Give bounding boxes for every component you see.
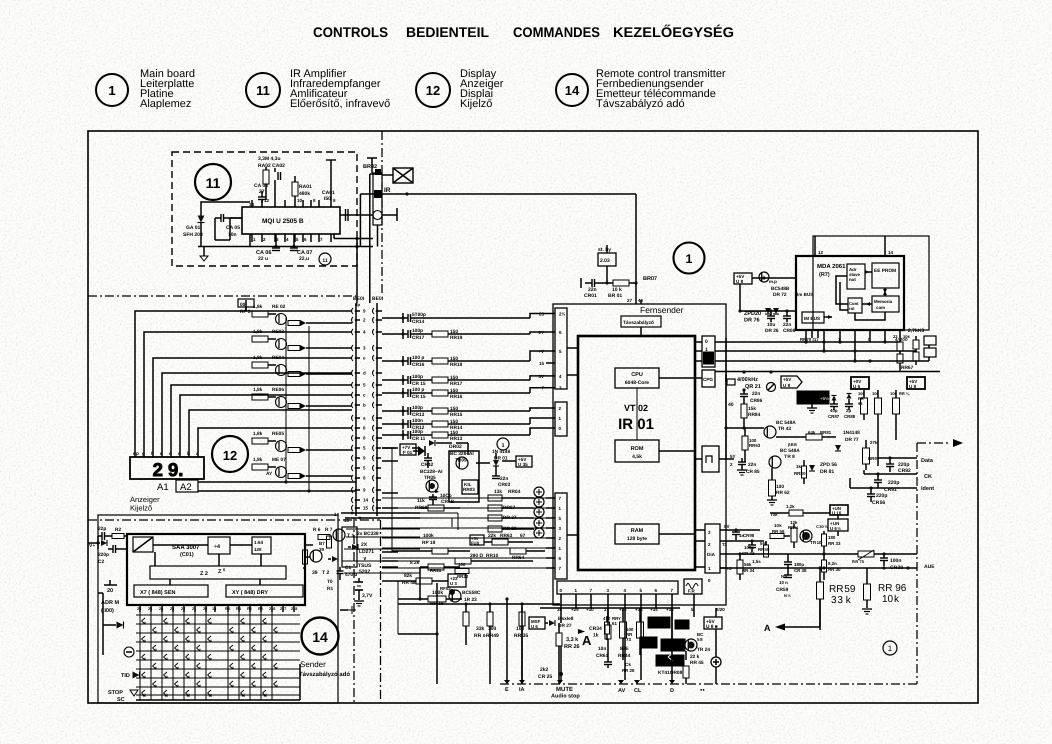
diode DR01 bbox=[493, 460, 499, 466]
transistor BC558C TR23 bbox=[449, 589, 455, 595]
power box +5V FU8 bbox=[470, 535, 484, 545]
connector pin 4 y332 bbox=[352, 329, 354, 335]
small box RF 5 bbox=[238, 299, 254, 307]
U2505 bottom pin 5 bbox=[294, 234, 296, 242]
U2505 top pin 12 bbox=[274, 200, 276, 207]
power box +UN U6 bbox=[828, 519, 848, 531]
resistor 100 RR35 bbox=[519, 612, 525, 626]
resistor 64k RR81 bbox=[806, 434, 822, 440]
strip pin 6 bbox=[655, 594, 657, 601]
resistor RR75 trim bbox=[858, 551, 874, 557]
wire CPU-right edge bbox=[659, 377, 695, 379]
wire row CR13 left bbox=[382, 410, 403, 412]
connector pin 14 y500 bbox=[352, 497, 354, 503]
SAA3007 bottom pin row bbox=[139, 605, 141, 612]
capacitor CR17 100p bbox=[407, 330, 409, 338]
bus verticals to EEPROM pins bbox=[805, 338, 807, 342]
pin +V left col1 bbox=[546, 350, 555, 352]
ground DR81 bbox=[807, 407, 817, 409]
wire CK bbox=[864, 473, 917, 475]
connector box CPG bbox=[702, 370, 715, 387]
connector pin b y405 bbox=[352, 402, 354, 408]
power box +5V U8 bottomcenter bbox=[704, 617, 722, 629]
wire connector col to CPU rows upper bbox=[381, 310, 382, 312]
IC block dark 1 bbox=[648, 617, 670, 628]
U2505 bottom pin 9 bbox=[330, 234, 332, 242]
F.R box oscillator bbox=[684, 579, 702, 594]
transistor block box bbox=[342, 527, 357, 567]
wires inside MDA2061 bbox=[865, 271, 872, 273]
capacitor CR12 100n bbox=[407, 420, 409, 428]
resistor 27k RR97 bbox=[863, 448, 870, 464]
capacitor CR16 100 p bbox=[407, 357, 409, 365]
MDA2061 bottom pins bbox=[805, 330, 807, 338]
circled minus symbol bbox=[124, 647, 134, 657]
wire stby down bbox=[606, 266, 608, 283]
wire row CR12 left bbox=[382, 423, 403, 425]
connector pin 3 y348 bbox=[352, 345, 354, 351]
circled plus bottom bbox=[711, 657, 721, 667]
wire Data bbox=[878, 457, 917, 459]
pin 3V left col1 bbox=[546, 375, 555, 377]
strip pin 0 bbox=[560, 594, 562, 601]
resistor RR96 body bbox=[864, 584, 871, 600]
transistor ME 07 pair bbox=[268, 466, 276, 468]
resistor BR01 10k bbox=[613, 280, 629, 286]
divider horizontal y296 bbox=[88, 295, 356, 297]
wire vertical x398 lower bbox=[397, 581, 399, 634]
battery 3.7V bbox=[355, 581, 363, 583]
transistor RE03 pair bbox=[268, 338, 276, 340]
pin 3 left col3 bbox=[546, 527, 555, 529]
pin 7 left col3 bbox=[546, 567, 555, 569]
block RAM 128 byte bbox=[615, 524, 659, 544]
wire row CR13 to pin bbox=[411, 410, 433, 412]
wire col3 to CPU bbox=[567, 534, 578, 536]
resistor RR38 bbox=[488, 526, 502, 532]
legend circle 1 Main board bbox=[96, 74, 128, 106]
capacitor CR 15 100p bbox=[407, 376, 409, 384]
wire RAM-right edge bbox=[659, 533, 695, 535]
capacitor CR 11 100p bbox=[407, 431, 409, 439]
wires bottom pins down bbox=[560, 601, 562, 608]
IR amplifier dashed box bbox=[172, 152, 357, 266]
wire row CR12 to pin bbox=[411, 423, 433, 425]
strip pin 4 bbox=[624, 594, 626, 601]
power box +5V U8 pentagon bbox=[781, 376, 802, 388]
transistor RE06 pair bbox=[268, 396, 276, 398]
wire IC pin7 to right bbox=[333, 235, 335, 239]
wire CPU bottom-right to DiA bbox=[695, 566, 705, 568]
U2505 top pin 11 bbox=[284, 200, 286, 207]
U2505 bottom pin 8 bbox=[318, 234, 320, 242]
capacitor CR14 5T00p bbox=[407, 314, 409, 322]
connector pin 9 y490 bbox=[352, 487, 354, 493]
resistor RR13 150 bbox=[432, 432, 448, 438]
wire DiA row 2 bbox=[720, 540, 764, 542]
U2505 bottom pin 2 bbox=[261, 234, 263, 242]
pin 12 top bbox=[814, 250, 816, 256]
ferrite bead box BR02 bbox=[393, 168, 413, 183]
connector box pulse bbox=[702, 446, 719, 472]
wire row CR16 to pin bbox=[411, 360, 433, 362]
junction dots bus bbox=[822, 340, 825, 343]
connector box 0/1/Meg bbox=[702, 336, 715, 367]
U2505 top pin 14 bbox=[251, 200, 253, 207]
wire RE03 output bbox=[312, 347, 352, 349]
U2505 top pin 8 bbox=[310, 200, 312, 207]
power box +5V U8 right bbox=[907, 377, 925, 389]
U2505 bottom pin 1 bbox=[251, 234, 253, 242]
pin 0 left col2 bbox=[546, 427, 555, 429]
pin 7 left col3 bbox=[546, 497, 555, 499]
connector pin 2 y320 bbox=[352, 317, 354, 323]
transistor RE 02 pair bbox=[268, 313, 276, 315]
wire GA01 to IC bbox=[214, 218, 216, 240]
wires rows to connector x382 bbox=[382, 447, 398, 449]
resistor 100 RR73 bbox=[620, 622, 627, 638]
resistor 15k RR84 bbox=[741, 404, 747, 418]
IC box MDA2061 bbox=[796, 256, 904, 330]
divider vertical x917 bbox=[916, 443, 918, 684]
resistor RR14 150 bbox=[432, 421, 448, 427]
diode DR02 bbox=[429, 440, 435, 446]
IR LED diode 2 bbox=[332, 556, 338, 562]
connector strip bottom bbox=[557, 581, 678, 594]
connector pin c y395 bbox=[352, 392, 354, 398]
divider horizontal y520 bbox=[88, 519, 380, 521]
power box +5V U8 top bbox=[734, 273, 752, 284]
resistor 100 RR96v bbox=[893, 398, 900, 414]
circled 14 block id bbox=[302, 618, 339, 655]
connector pin 5 y448 bbox=[352, 445, 354, 451]
matrix left rail bbox=[102, 593, 104, 655]
resistor stack 22k RR67 bbox=[897, 342, 903, 351]
ground RR96 bbox=[862, 608, 872, 610]
wire row CR 15 left bbox=[382, 379, 403, 381]
wire row CR14 left bbox=[382, 317, 403, 319]
U2505 top pin 6 bbox=[330, 200, 332, 207]
IR module pin blobs bbox=[375, 169, 381, 175]
pin 1 left col2 bbox=[546, 417, 555, 419]
wires transistor col verticals bbox=[245, 300, 247, 311]
sub-box divider bbox=[208, 537, 230, 554]
paper texture bbox=[0, 0, 1, 1]
resistor RR74 column bbox=[637, 622, 644, 638]
block CPU 6048-Core bbox=[615, 368, 659, 388]
wire IC right out y215 bbox=[340, 214, 373, 216]
block EE PROM bbox=[872, 263, 899, 288]
connector pin 5 y385 bbox=[352, 382, 354, 388]
U2505 bottom pin 6 bbox=[302, 234, 304, 242]
transistor TR8 bbox=[769, 456, 781, 468]
keyboard matrix transistor grid bbox=[139, 612, 141, 700]
wire vertical x392 cluster bbox=[391, 448, 393, 552]
pin 23 left col1 bbox=[546, 313, 555, 315]
box Tavszabalyzo bbox=[621, 316, 661, 327]
resistor 100 RR49 bbox=[487, 612, 493, 626]
resistor 100 RR62 bbox=[769, 480, 776, 496]
sub-box XY 848 DRV bbox=[226, 585, 303, 597]
divider horizontal y684 bbox=[500, 683, 917, 685]
wire ROM-right edge bbox=[659, 450, 695, 452]
resistor RR15 150 bbox=[432, 408, 448, 414]
transistor TR24 right bbox=[685, 639, 697, 651]
wires bottom drop to mute line bbox=[506, 599, 508, 680]
resistor R7 box bbox=[318, 535, 330, 540]
wire long y194 to CPU area bbox=[360, 193, 636, 195]
connector rail right x377 bbox=[376, 303, 378, 516]
strip pin 5 bbox=[640, 594, 642, 601]
bus rows from CPU conn bbox=[715, 341, 900, 343]
wires DiA bottom bbox=[720, 567, 726, 569]
power box +UN U16 bbox=[830, 505, 848, 515]
connector pin 9 y311 bbox=[352, 308, 354, 314]
wire TR43 row bbox=[726, 427, 764, 429]
wire RE05 output bbox=[312, 449, 352, 451]
U2505 bottom pin 7 bbox=[310, 234, 312, 242]
capacitor CR13 100p bbox=[407, 407, 409, 415]
resistor 33k RR26 bbox=[556, 633, 562, 646]
resistor RF02 box bbox=[448, 574, 466, 587]
transistor T1 bbox=[333, 529, 345, 541]
photodiode module bbox=[373, 173, 382, 225]
U2505 top pin 10 bbox=[294, 200, 296, 207]
circled 11 block id bbox=[195, 164, 231, 200]
resistor 33k RR51 bbox=[463, 612, 469, 626]
legend circle 14 Remote control transmitter bbox=[556, 74, 588, 106]
wire bottom y568 bbox=[788, 567, 917, 569]
wire RE 02 output bbox=[312, 322, 352, 324]
transistor sw bottom bbox=[348, 606, 356, 614]
U2505 bottom pin 4 bbox=[284, 234, 286, 242]
op-amp U2505 IC box MQI U 2505 B bbox=[242, 207, 340, 234]
connector pin 15 y508 bbox=[352, 505, 354, 511]
circled 12 block id bbox=[212, 436, 248, 472]
wire bottom y554 bbox=[720, 553, 858, 555]
transistor RE05 pair bbox=[268, 440, 276, 442]
IC block dark 2 bbox=[640, 637, 657, 648]
sub-box X7 848 SEN bbox=[134, 585, 208, 597]
display module box bbox=[130, 457, 204, 479]
resistor 180 RR33 bbox=[822, 534, 827, 546]
connector pin 8 y428 bbox=[352, 425, 354, 431]
transistor TR09 bbox=[456, 457, 468, 469]
connector pin 8 y478 bbox=[352, 475, 354, 481]
resistor R8 vertical bbox=[303, 550, 308, 564]
matrix transistor symbols bbox=[142, 618, 146, 624]
wire CPU to conn boxes bbox=[695, 341, 702, 343]
sub-box Z2 Z6 register bbox=[150, 566, 286, 579]
capacitor CR 15 100 p bbox=[407, 389, 409, 397]
transistor TR10 dark bbox=[802, 532, 810, 540]
wire left edge to IC rows bbox=[97, 536, 99, 549]
strip pin 7 bbox=[671, 594, 673, 601]
wire row CR 11 to pin bbox=[411, 434, 433, 436]
wire DiA row 3 bbox=[720, 529, 760, 531]
wire RE06 output bbox=[312, 405, 352, 407]
legend circle 12 Display bbox=[416, 73, 450, 107]
legend circle 11 IR Amplifier bbox=[246, 73, 280, 107]
resistor RR59 body bbox=[817, 582, 824, 599]
pin 2 left col3 bbox=[546, 537, 555, 539]
connector pin d y373 bbox=[352, 370, 354, 376]
transistor T2 bbox=[310, 550, 322, 562]
wire vertical x636 down bbox=[635, 194, 637, 283]
strip pin 1 bbox=[575, 594, 577, 601]
resistor RR17 150 bbox=[432, 377, 448, 383]
wire Ident bbox=[850, 487, 917, 489]
block IM BUS bbox=[802, 312, 824, 323]
wire row CR16 left bbox=[382, 360, 403, 362]
resistor RR16 150 bbox=[432, 390, 448, 396]
connector column left middle bbox=[555, 402, 567, 436]
resistor RR18 150 bbox=[432, 358, 448, 364]
pin 15 left col1 bbox=[546, 362, 555, 364]
pin 7 left col1 bbox=[546, 387, 555, 389]
wire CPU-ROM vertical bbox=[636, 388, 638, 440]
wire row CR 15 left bbox=[382, 392, 403, 394]
wire transmitter top pins bbox=[341, 512, 420, 514]
block Control bbox=[848, 298, 862, 313]
wire IC right to T circuit bbox=[305, 544, 313, 546]
IC block dark 3 bbox=[661, 639, 685, 651]
connector column left lower bbox=[555, 493, 567, 579]
connector pin 9 y458 bbox=[352, 455, 354, 461]
resistor RR19 150 bbox=[432, 331, 448, 337]
circled 11 small bbox=[319, 253, 331, 265]
power box +7V F01 bbox=[400, 444, 416, 455]
divider vertical x354 lower bbox=[353, 518, 355, 703]
wire BR01 to fernsender bbox=[635, 283, 637, 304]
IC box DR81 dark bbox=[797, 391, 829, 404]
sub-box 1:64 bbox=[252, 537, 271, 554]
connector rail left x356 bbox=[355, 303, 357, 516]
resistor 8.2n RR30 bbox=[822, 560, 827, 572]
wires inside SAA3007 bbox=[153, 544, 208, 546]
power box +0V U6 bbox=[851, 377, 869, 389]
wire circle output to endbar bbox=[382, 214, 397, 216]
block Memoria com bbox=[872, 296, 899, 312]
bus vertical x726 bbox=[725, 338, 727, 362]
strip pin 7 bbox=[590, 594, 592, 601]
resistor 100k RR63v bbox=[742, 436, 748, 450]
diode input left bbox=[101, 540, 107, 546]
capacitor CA02 bbox=[277, 172, 279, 180]
main board frame bbox=[88, 131, 978, 703]
U2505 top pin 7 bbox=[318, 200, 320, 207]
wire top bus y342 from x830 bbox=[812, 235, 814, 237]
transmitter outer box bbox=[98, 515, 338, 703]
connector pin 5 y468 bbox=[352, 465, 354, 471]
resistor 56k RR34 bbox=[737, 560, 743, 574]
wire RR45 chain bbox=[671, 608, 673, 640]
wire fernsender top to EEPROM bbox=[640, 300, 642, 304]
circled 1 small DR01 bbox=[497, 438, 509, 450]
resistor RR37 bbox=[488, 515, 502, 521]
trimmer circle bbox=[767, 383, 776, 392]
divider vertical x382 bbox=[381, 131, 383, 296]
small box right edge x929 bbox=[924, 336, 936, 345]
wire row CR 15 to pin bbox=[411, 392, 433, 394]
IR LED diode 1 bbox=[352, 544, 358, 550]
junction dots bus rows right bbox=[742, 370, 745, 373]
wires display fanout bbox=[135, 311, 352, 454]
resistor KIL RR03 box bbox=[462, 480, 478, 494]
U2505 top pin 13 bbox=[261, 200, 263, 207]
connector pin a y418 bbox=[352, 415, 354, 421]
resistor RR64 bbox=[510, 548, 526, 554]
pin 14 top bbox=[884, 250, 886, 256]
bus exit arrow right bbox=[917, 442, 950, 444]
resistor 100 RR93 bbox=[861, 398, 868, 414]
divider vertical x380 lower bbox=[380, 520, 382, 703]
block ROM 4.5k bbox=[615, 440, 659, 462]
matrix bottom wire bbox=[136, 699, 300, 701]
wire A-row x437 bbox=[398, 633, 437, 635]
strip pin 3 bbox=[607, 594, 609, 601]
IC box SAA3007 bbox=[127, 534, 305, 605]
resistor stack right x916 bbox=[913, 340, 919, 349]
resistor D2k bbox=[789, 510, 803, 516]
wire x726 down to crystal bbox=[725, 362, 727, 382]
U2505 bottom pin 3 bbox=[274, 234, 276, 242]
resistor 470 RR61 bbox=[605, 625, 611, 639]
wire row CR 11 left bbox=[382, 434, 403, 436]
resistor RR07 bbox=[488, 505, 502, 511]
wire IC pin1 down ground rail bbox=[249, 235, 251, 247]
connector pin e y358 bbox=[352, 355, 354, 361]
wire col1 to CPU bbox=[567, 347, 578, 349]
wire row CR17 left bbox=[382, 333, 403, 335]
wires center-left cluster bbox=[392, 447, 396, 449]
connector column left upper bbox=[555, 308, 567, 389]
pin 2Y left col1 bbox=[546, 331, 555, 333]
wire IC left input bbox=[230, 217, 242, 219]
capacitor CR01 22n bbox=[591, 279, 593, 287]
box A2 bbox=[176, 480, 198, 492]
connector pin 8 y438 bbox=[352, 435, 354, 441]
EEPROM outer box bbox=[813, 236, 929, 330]
power box +5V U35 bbox=[516, 456, 532, 467]
box MSF U6 bbox=[529, 617, 545, 629]
wires EEPROM left bbox=[752, 277, 796, 279]
wire horizontal y608 pins bbox=[540, 607, 680, 609]
pin 1 left col3 bbox=[546, 547, 555, 549]
resistor 100 RR92mid bbox=[875, 398, 882, 414]
transistor TR05 bbox=[426, 480, 438, 492]
wires connector col3 long rows bbox=[382, 497, 546, 499]
diode D1 left bbox=[117, 622, 124, 629]
IC box CPU VT02 IR01 bbox=[578, 336, 695, 570]
wire y174 to ground rail bbox=[370, 173, 382, 175]
pin 6 left col3 bbox=[546, 557, 555, 559]
wire A1 A2 outputs right bbox=[198, 481, 356, 483]
wire y568 left part bbox=[736, 567, 788, 569]
wire ME 07 output bbox=[312, 475, 352, 477]
transistor TR04 arrows bbox=[418, 446, 425, 456]
oscillator sub-box bbox=[133, 537, 153, 552]
pin 2 left col2 bbox=[546, 407, 555, 409]
transistor RE04 pair bbox=[268, 364, 276, 366]
wire horizontal y604 bbox=[398, 603, 466, 605]
U2505 top pin 9 bbox=[302, 200, 304, 207]
wire row CR 15 to pin bbox=[411, 379, 433, 381]
block Adr slave bbox=[847, 264, 865, 289]
circled 1 bottom right bbox=[883, 641, 897, 655]
resistor R6 vertical bbox=[327, 536, 332, 548]
connector box DiA bbox=[705, 524, 720, 573]
